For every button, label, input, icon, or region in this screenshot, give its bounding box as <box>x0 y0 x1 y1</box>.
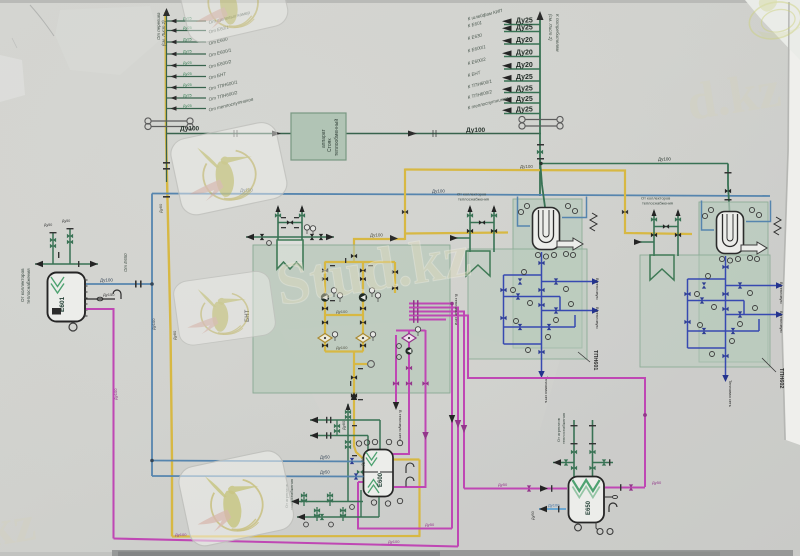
pump П2 <box>359 293 367 301</box>
wire: green header above Е601 <box>35 263 98 265</box>
syphon hooks right of Е600 <box>406 463 414 473</box>
wire: yellow branch to subsystem1 <box>405 233 508 234</box>
tank Е650 <box>569 477 605 523</box>
wire: magenta row into Е650 <box>464 488 567 490</box>
wire: magenta inner verticals <box>395 335 397 402</box>
photo bottom dark strip <box>112 550 793 556</box>
wire: blue Ду50 feeds <box>152 461 364 462</box>
wire: green supply pair upper <box>310 419 380 421</box>
wire: return branch От Е60/1 <box>167 25 230 35</box>
syphon hook right of Е650 <box>609 503 617 512</box>
heat exchanger box (Стояк теплообменный) <box>291 113 346 160</box>
instruments below Е650 <box>577 523 579 525</box>
wire: yellow pump branch B <box>362 262 364 352</box>
overflow line with syphon <box>86 298 115 300</box>
wire: supply branch К БНТ <box>467 70 540 82</box>
wire: magenta row out of Е650 <box>605 487 645 489</box>
wire: yellow header1 <box>325 261 396 263</box>
subsystem2 internals <box>634 196 784 407</box>
wire: magenta branch h3 <box>409 312 464 489</box>
wire: yellow link to БНТ loop <box>354 239 405 262</box>
wire: yellow drop riser bottom <box>418 460 420 537</box>
ticks on yellow loop <box>330 258 373 400</box>
wire: magenta branch h2 <box>409 308 458 547</box>
wire: green header y237 <box>246 236 334 238</box>
valve ticks on magenta bundle <box>413 300 419 323</box>
watermark logo mid-left <box>168 120 290 218</box>
wire: green risers above Е601 <box>52 233 54 264</box>
chevron banner БНТ <box>277 240 303 269</box>
tank Е600 <box>364 450 394 497</box>
wire: supply branch К теплоспутникам <box>467 95 540 113</box>
node: riser top arrow <box>537 11 544 20</box>
box: БНТ block <box>253 245 450 393</box>
faint scratch top-left <box>30 5 54 36</box>
watermark logo bottom <box>176 448 296 549</box>
watermark logo left-lower <box>172 270 277 347</box>
magenta distribution bundle <box>393 304 646 547</box>
magenta filter+pump <box>402 334 416 343</box>
wire: collector riser dark green <box>166 10 168 182</box>
wire: cyan drain stub <box>539 508 566 510</box>
box: СН block 1 wide <box>468 249 587 359</box>
wire: supply branch К шлейфам КИП <box>467 7 540 25</box>
watermark logo top <box>174 0 291 46</box>
wire: magenta from Е601 <box>86 309 114 539</box>
wire: supply branch К Е600/2 <box>467 57 540 70</box>
instruments above Е600 <box>356 439 402 446</box>
wire: magenta branch h4 / Е650 loop <box>409 316 645 488</box>
wire: blue link from Е601 <box>86 283 152 285</box>
pump П1 <box>321 293 329 301</box>
watermark swirl top-right <box>740 0 800 43</box>
wire: yellow pump branch A <box>324 262 326 352</box>
wire: magenta branch h5 <box>409 319 446 321</box>
wire: supply branch К Е600/1 <box>467 44 540 57</box>
wire: return branch От Е600/1 <box>167 47 232 58</box>
wire: Ду100 collector header green <box>167 133 542 135</box>
box: СН block 1 tall <box>513 199 582 348</box>
wire: return branch От теплоспутников <box>167 96 254 112</box>
subsystem1 internals <box>450 192 600 403</box>
instruments below Е600 <box>371 498 402 506</box>
wire: green lower cluster <box>291 501 363 503</box>
wire: yellow header2 <box>325 314 363 316</box>
wire: yellow bottom run <box>172 535 421 538</box>
wire: yellow feeder riser x405 <box>404 169 406 241</box>
wire: supply branch К ТПН600/1 <box>467 78 540 92</box>
wire: return branch От БНТ <box>167 71 228 80</box>
box: СН block 2 tall <box>699 202 768 362</box>
wire: return branch От Е600 <box>167 36 229 46</box>
valves on yellow <box>322 254 398 398</box>
wire: return branch От ТПН600/2 <box>167 90 238 102</box>
right edge shadow <box>782 2 789 440</box>
wire: supply branch К Е601 <box>467 20 540 32</box>
wire: green header Ду100 y163 <box>541 163 728 165</box>
lollipop <box>354 363 367 365</box>
wire: yellow header y170 to right subsystem <box>405 170 692 235</box>
wire: magenta branch h1 <box>409 304 452 529</box>
node: riser top arrow <box>163 8 170 16</box>
wire: yellow right stub <box>394 262 396 293</box>
wire: magenta mid bottom run <box>358 482 452 529</box>
wire: blue left riser down <box>151 194 153 477</box>
wire: supply branch К ТПН600/2 <box>467 89 540 103</box>
wire: green riser x348 <box>347 404 349 502</box>
wire: green drop to tank2 <box>728 164 730 212</box>
box: СН block 2 wide <box>640 255 770 367</box>
photo top edge <box>0 0 800 3</box>
light overexposed patches <box>55 6 160 75</box>
yellow accumulator loop <box>172 262 421 537</box>
wire: supply branch К Е630 <box>467 32 540 44</box>
right white paper edge <box>783 0 800 445</box>
wire: return branch От Е600/2 <box>167 59 232 70</box>
ticks on yellow riser <box>163 162 170 198</box>
wire: green feed riser to tank1 <box>540 160 545 207</box>
wire: magenta bottom long run <box>114 539 459 547</box>
wire: green feed risers to БНТ <box>278 207 302 240</box>
tank Е601 <box>48 273 86 322</box>
flange pair bypass right <box>525 120 557 127</box>
wire: blue header Ду100 <box>152 194 770 197</box>
flange pair bypass left <box>151 121 187 127</box>
wire: yellow drop out of БНТ <box>354 352 420 460</box>
wire: yellow header3 <box>325 350 363 352</box>
filter Ф2 <box>356 334 370 343</box>
filter Ф1 <box>318 334 332 343</box>
wire: return branch От щелевых камер <box>167 10 251 25</box>
valve on riser below junction <box>537 150 543 154</box>
wire: distribution riser green <box>539 14 541 196</box>
wire: yellow drain riser (full height) <box>166 12 173 537</box>
wire: green feeds Е650 <box>573 420 575 478</box>
wire: return branch От ТПН600/1 <box>167 79 238 91</box>
